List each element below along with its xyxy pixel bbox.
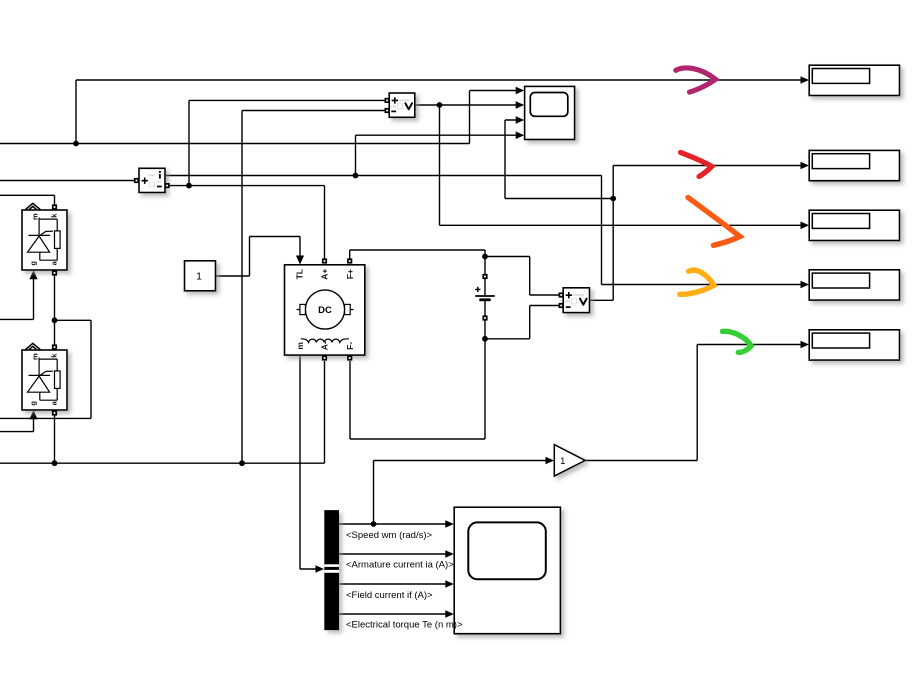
wire Gain output to Display5 xyxy=(585,341,809,461)
wire V1 plus input xyxy=(186,100,389,188)
wire current measurement input xyxy=(0,180,136,182)
DC voltage source battery xyxy=(350,257,495,440)
wire V1 minus input to armature rail xyxy=(239,111,389,467)
display block 3 xyxy=(809,210,899,240)
svg-text:F+: F+ xyxy=(345,269,355,279)
scope2 xyxy=(454,507,560,634)
wire bus out3 xyxy=(339,580,454,588)
wire loop from node to left edge xyxy=(0,320,91,418)
wire speed signal to Scope2 in1 and Gain xyxy=(339,457,554,528)
wire V2 plus tap xyxy=(485,257,563,296)
current measurement block i xyxy=(139,168,165,192)
display block 2 xyxy=(809,150,899,180)
display block 5 xyxy=(809,330,899,360)
port squares conserving ports xyxy=(52,98,564,416)
wire i minus to DC machine A+ xyxy=(165,186,325,260)
wire thyristor2 anode to rail xyxy=(52,415,58,466)
wire m measurement to Bus Selector xyxy=(300,355,324,573)
wire i signal to Scope in4 and Display4 xyxy=(165,131,809,288)
display block 1 xyxy=(809,65,899,95)
svg-text:m: m xyxy=(30,213,39,220)
svg-text:<Electrical torque Te (n m)>: <Electrical torque Te (n m)> xyxy=(346,619,463,630)
wire net source voltage to Display1 and Scope in1 xyxy=(0,76,809,146)
svg-text:<Armature current ia (A)>: <Armature current ia (A)> xyxy=(346,560,454,571)
wire thyristor1 cathode xyxy=(0,195,55,205)
wire V2 minus tap xyxy=(485,306,563,339)
scope1 xyxy=(525,86,575,139)
wire V2 output to Scope in3 and Display2 xyxy=(505,116,809,300)
wire F+ to battery plus node xyxy=(350,250,488,260)
thyristor Th1 xyxy=(22,210,67,270)
thyristor Th1 m port hollow arrow xyxy=(26,203,41,209)
wire gate pulse thyristor1 xyxy=(0,270,38,319)
constant block 1 xyxy=(185,261,216,291)
thyristor Th2 xyxy=(22,350,67,410)
svg-text:<Field current if (A)>: <Field current if (A)> xyxy=(346,590,433,601)
svg-text:g: g xyxy=(28,261,37,266)
wire thyristor1 anode to thyristor2 cathode xyxy=(52,272,58,345)
annotation arrow magenta xyxy=(676,68,716,92)
svg-text:F-: F- xyxy=(345,342,355,350)
voltage measurement V1 xyxy=(389,93,415,117)
wire Constant1 to TL input xyxy=(216,237,304,277)
svg-text:DC: DC xyxy=(318,305,332,316)
wire V1 output to Scope in2 and Display3 xyxy=(415,101,809,229)
thyristor Th2 m port hollow arrow xyxy=(26,343,41,349)
DC machine block xyxy=(285,265,365,355)
svg-text:TL: TL xyxy=(294,269,304,279)
display block 4 xyxy=(809,270,899,300)
gain block 1 xyxy=(554,445,585,477)
annotation arrow red xyxy=(681,152,712,176)
svg-text:m: m xyxy=(295,342,305,350)
svg-text:1: 1 xyxy=(560,456,565,467)
svg-text:g: g xyxy=(28,401,37,406)
svg-text:<Speed wm (rad/s)>: <Speed wm (rad/s)> xyxy=(346,530,433,541)
annotation arrow amber xyxy=(680,270,714,294)
annotation arrow green xyxy=(723,331,752,352)
svg-text:m: m xyxy=(30,353,39,360)
bus selector xyxy=(324,510,339,630)
svg-text:A+: A+ xyxy=(320,269,330,280)
svg-text:A-: A- xyxy=(320,341,330,350)
wire gate pulse thyristor2 xyxy=(0,410,38,431)
svg-text:1: 1 xyxy=(196,271,202,283)
wire bus out4 xyxy=(339,610,454,618)
wire bottom rail to DC machine A- xyxy=(0,361,325,463)
annotation arrow orange xyxy=(688,198,740,246)
wire bus out2 xyxy=(339,550,454,558)
voltage measurement V2 xyxy=(563,288,589,313)
